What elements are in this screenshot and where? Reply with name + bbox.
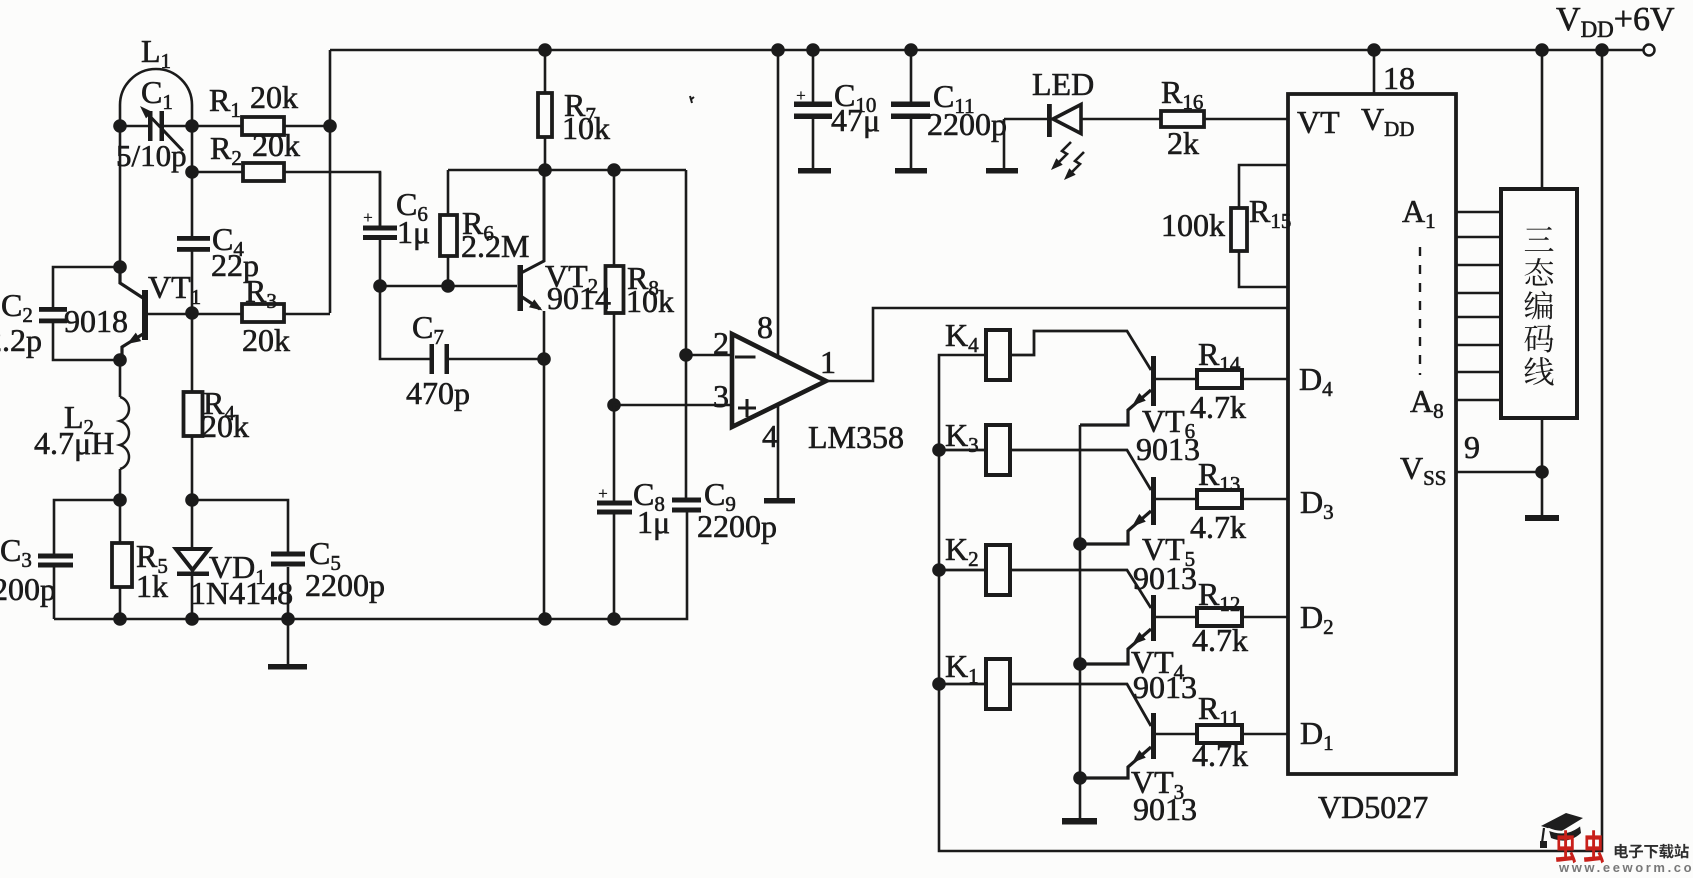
svg-text:+: + (363, 208, 373, 227)
svg-text:10k: 10k (626, 283, 674, 319)
svg-text:20k: 20k (250, 79, 298, 115)
svg-text:LM358: LM358 (808, 419, 904, 455)
svg-text:4.7k: 4.7k (1190, 509, 1246, 545)
svg-text:1k: 1k (136, 568, 168, 604)
svg-text:20k: 20k (201, 408, 249, 444)
svg-text:VD5027: VD5027 (1318, 789, 1428, 825)
svg-text:47μ: 47μ (831, 102, 880, 138)
svg-text:2: 2 (713, 325, 729, 361)
svg-text:9018: 9018 (64, 303, 128, 339)
svg-text:470p: 470p (406, 375, 470, 411)
svg-text:9014: 9014 (547, 280, 611, 316)
svg-text:2200p: 2200p (697, 508, 777, 544)
svg-text:2200p: 2200p (0, 571, 56, 607)
svg-text:1N4148: 1N4148 (190, 575, 293, 611)
svg-text:9013: 9013 (1133, 560, 1197, 596)
svg-text:1μ: 1μ (637, 504, 670, 540)
svg-text:4.7k: 4.7k (1190, 389, 1246, 425)
svg-text:1μ: 1μ (397, 214, 430, 250)
svg-text:VT: VT (1297, 104, 1340, 140)
svg-text:9013: 9013 (1136, 431, 1200, 467)
svg-text:9013: 9013 (1133, 791, 1197, 827)
svg-text:www.eeworm.com: www.eeworm.com (1558, 860, 1693, 873)
svg-text:8: 8 (757, 309, 773, 345)
svg-text:5/10p: 5/10p (116, 138, 187, 173)
svg-text:4.7k: 4.7k (1192, 622, 1248, 658)
svg-text:9: 9 (1464, 429, 1480, 465)
svg-text:4: 4 (762, 418, 778, 454)
svg-text:1: 1 (820, 344, 836, 380)
svg-text:2.2p: 2.2p (0, 322, 42, 358)
svg-text:20k: 20k (252, 127, 300, 163)
svg-text:2200p: 2200p (927, 106, 1007, 142)
svg-text:20k: 20k (242, 322, 290, 358)
svg-text:2.2M: 2.2M (461, 228, 529, 264)
svg-text:4.7k: 4.7k (1192, 737, 1248, 773)
svg-text:LED: LED (1032, 66, 1094, 102)
svg-text:+: + (796, 86, 806, 105)
svg-text:+: + (598, 484, 608, 503)
svg-text:100k: 100k (1161, 207, 1225, 243)
svg-text:VDD+6V: VDD+6V (1556, 1, 1675, 42)
svg-text:2200p: 2200p (305, 567, 385, 603)
svg-text:3: 3 (713, 378, 729, 414)
svg-text:10k: 10k (562, 110, 610, 146)
svg-text:18: 18 (1383, 60, 1415, 96)
svg-text:4.7μH: 4.7μH (34, 425, 114, 461)
svg-text:2k: 2k (1167, 125, 1199, 161)
svg-text:9013: 9013 (1133, 669, 1197, 705)
